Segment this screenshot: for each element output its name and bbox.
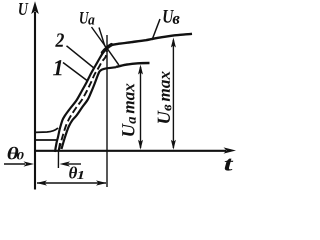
diagonal from junction to U_a curve [107,48,119,65]
label θ0 [8,147,24,160]
curve 1 (right solid of bundle, bends right into U_a) [62,67,117,149]
label 1 [53,60,62,75]
dashed curve (between curves 1 and 2) [59,51,107,150]
U axis (vertical) [31,1,39,189]
rotated label U_a max [122,84,136,136]
label 2 [55,33,64,46]
rotated label U_в max [158,71,172,123]
θ0 arrow (right outside arrow pointing left) [60,161,82,166]
θ1 dimension line with outward arrowheads [37,180,107,185]
junction blob where curves meet at t=θ1 [103,45,112,53]
dimension line U_a max (double arrow x≈140.5) [138,65,143,150]
leader fan line B from U_a to junction [99,28,105,47]
dimension line U_в max (double arrow x≈173.4) [171,38,176,150]
label U_a [80,12,95,25]
curve U_в (upper flat response curve) [107,34,193,48]
label U_в [163,10,179,24]
leader line from label 1 [63,63,87,81]
label θ1 [69,166,83,179]
θ0 arrow (left outside arrow pointing right) [4,161,34,166]
t axis (horizontal) [34,147,236,153]
leader line from U_в to curve [152,19,160,40]
curve 2 (left solid of rising bundle, continues into U_в) [55,48,107,153]
initial level line at theta0 (curve 1 start) [35,139,57,141]
curve U_a (lower flat response curve) [116,63,150,67]
vertical extension line at t=θ0 end (x≈58.4) [58,143,59,168]
leader line from label 2 [67,46,95,69]
U axis label [19,3,29,15]
leader fan line A from U_a to junction [92,27,107,48]
vertical extension line at t=θ1 (x≈107) [106,35,108,187]
initial flat level segment (curve 2 start) [35,128,58,132]
t axis label [225,159,234,171]
